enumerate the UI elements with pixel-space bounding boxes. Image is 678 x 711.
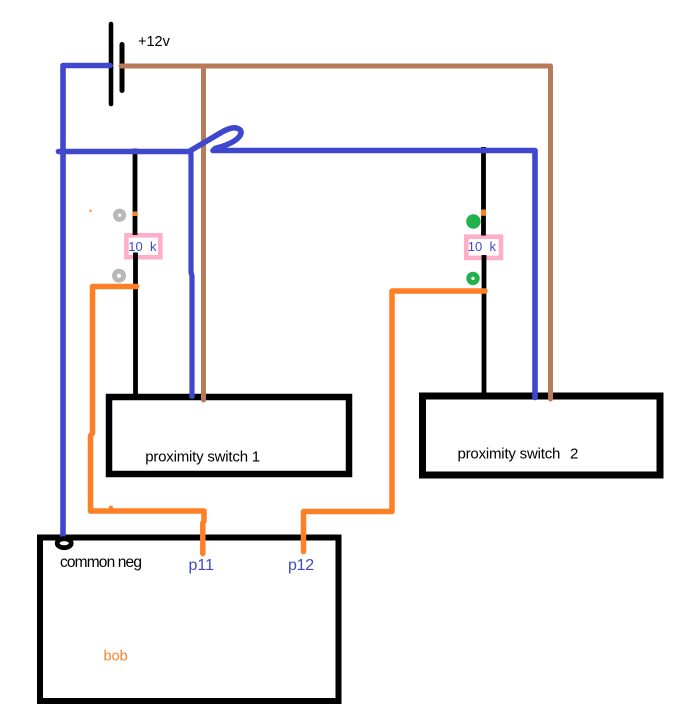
brown wire branch to proximity switch 1 — [201, 68, 206, 400]
battery B1 right plate — [120, 45, 125, 91]
green indicator ring (prox switch 2) — [469, 274, 477, 282]
bob terminal box (common neg) — [40, 538, 339, 702]
gray indicator ring upper (prox switch 1) — [116, 211, 124, 219]
gray indicator ring lower (prox switch 1) — [115, 271, 124, 280]
green indicator dot (prox switch 2) — [466, 214, 480, 228]
resistor R1 lead wire lower (black vertical, left) — [133, 253, 138, 397]
proximity switch 1 box — [109, 397, 349, 474]
resistor R1 lead wire upper (black vertical, left) — [133, 149, 138, 236]
orange tick on R1 — [133, 212, 138, 217]
resistor R2 lead wire lower (black vertical, right) — [482, 255, 487, 395]
svg-text:+12v: +12v — [138, 34, 171, 50]
battery B1 left plate — [109, 24, 114, 104]
pink value box left (10 k) — [126, 235, 160, 257]
svg-text:2: 2 — [570, 446, 578, 463]
orange bump on p11 wire — [107, 506, 115, 512]
svg-text:10 k: 10 k — [468, 239, 497, 254]
orange wire p11: resistor R1 tap to bob p11 — [91, 287, 205, 554]
svg-text:bob: bob — [104, 649, 128, 665]
proximity switch 2 box — [423, 396, 661, 475]
svg-text:10 k: 10 k — [128, 239, 157, 254]
svg-text:common neg: common neg — [60, 554, 141, 571]
brown wire +12V rail to proximity switch 2 — [121, 66, 551, 399]
blue wire drop to proximity switch 1 — [191, 153, 192, 399]
orange tick on R2 — [481, 210, 486, 216]
blue wire battery negative to common neg — [63, 66, 110, 540]
orange speck — [90, 210, 92, 212]
svg-text:p11: p11 — [189, 557, 215, 574]
svg-text:proximity switch 1: proximity switch 1 — [145, 449, 260, 466]
orange wire p12: resistor R2 tap to bob p12 — [304, 291, 486, 552]
blue wire horizontal bus with hop over brown wire — [59, 128, 536, 398]
svg-text:p12: p12 — [288, 557, 314, 574]
pink value box right (10 k) — [466, 237, 501, 258]
svg-text:proximity switch: proximity switch — [458, 446, 561, 463]
common neg ring terminal — [57, 539, 71, 548]
resistor R2 lead wire upper (black vertical, right) — [481, 147, 486, 236]
